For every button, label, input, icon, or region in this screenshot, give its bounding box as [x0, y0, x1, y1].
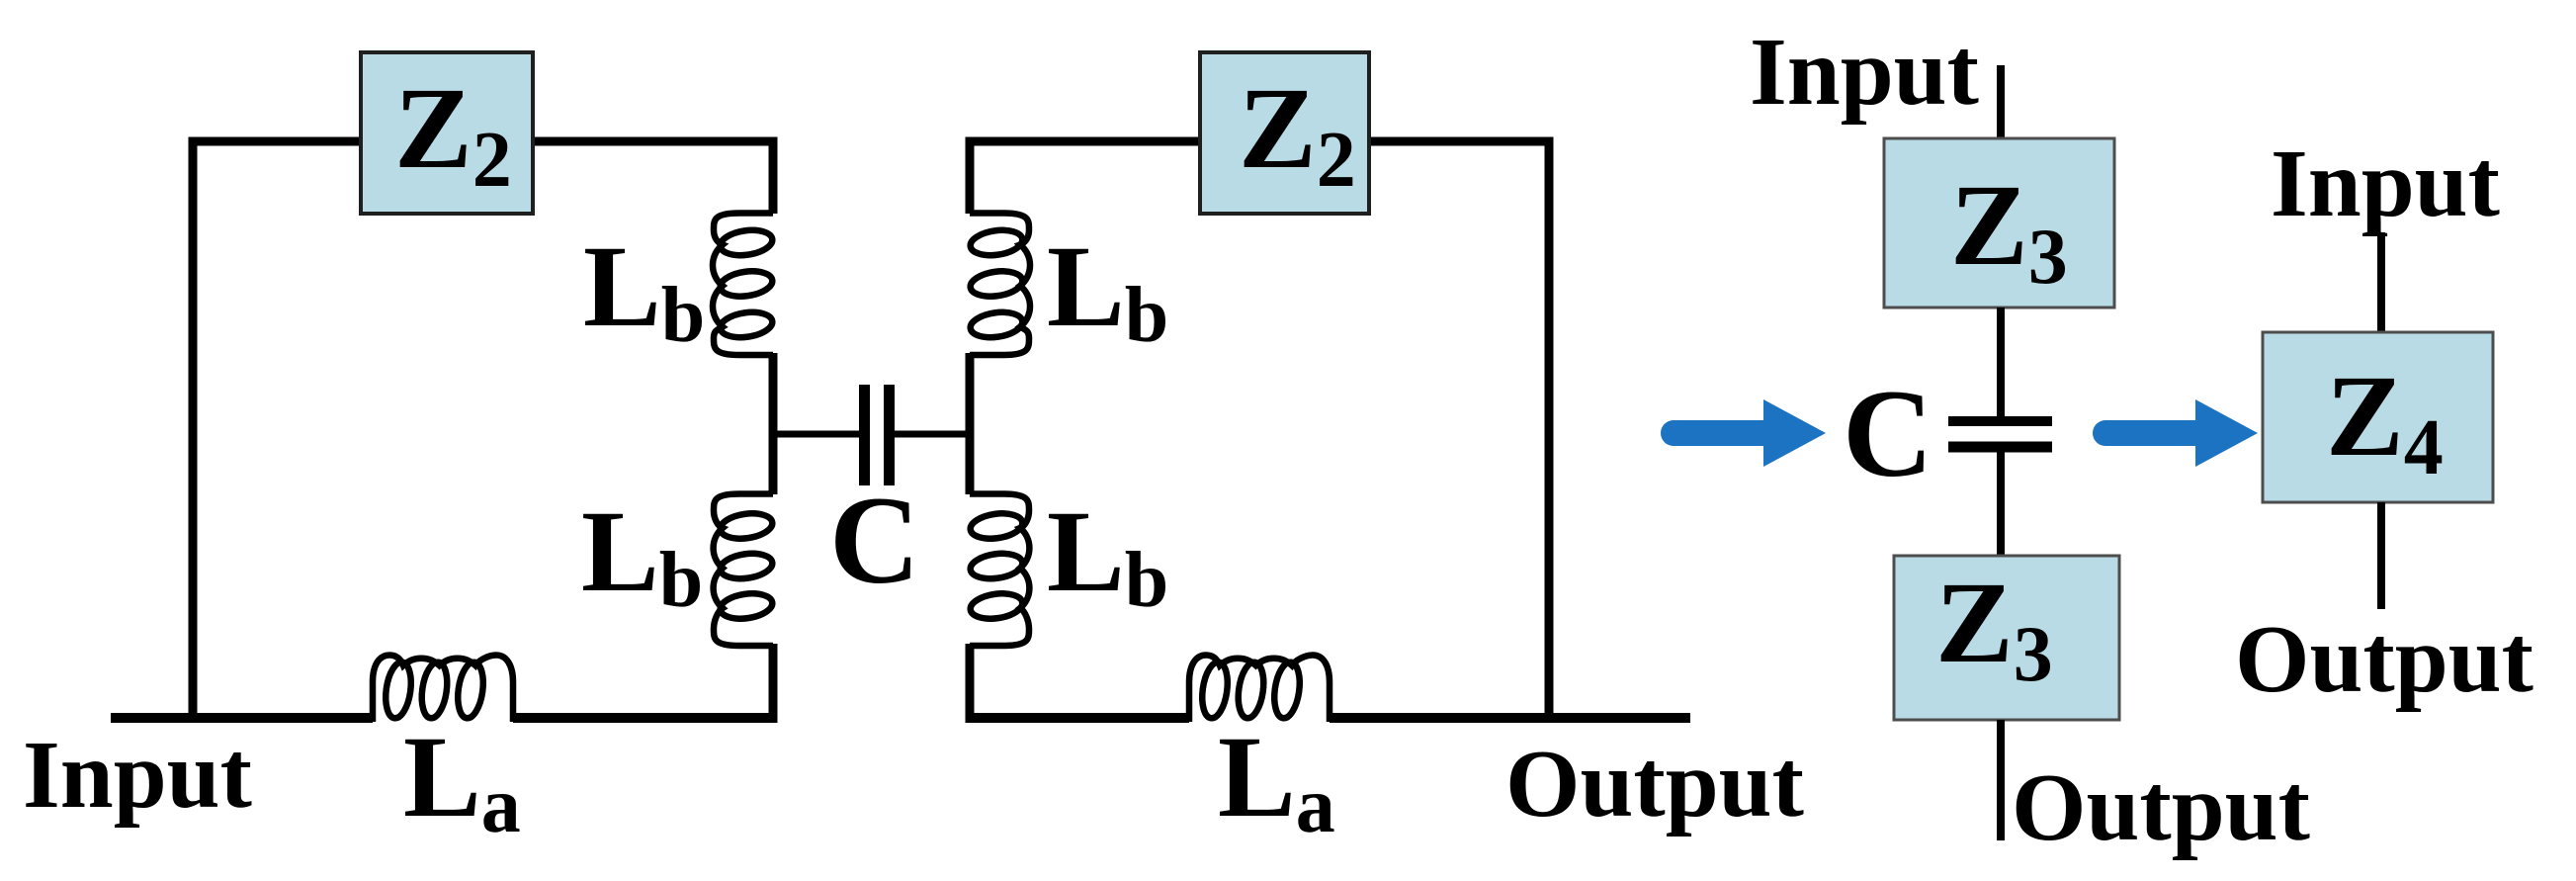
svg-text:Lb: Lb	[1047, 486, 1168, 624]
wire : bottom left, circuit 2	[966, 713, 1190, 723]
capacitor C (between circuits, vertical plates)	[859, 385, 870, 485]
wire : right branch lower vertical, circuit 1	[769, 644, 778, 718]
inductor La (circuit 2, horizontal coil)	[1189, 656, 1330, 723]
svg-text:Input: Input	[23, 722, 252, 828]
capacitor C (middle circuit, horizontal plates)	[1948, 416, 2052, 426]
wire : right branch middle vertical, circuit 1	[769, 353, 778, 494]
inductor La (circuit 1, horizontal coil)	[373, 656, 513, 723]
wire : left branch lower vertical, circuit 2	[966, 644, 975, 718]
wire : capacitor stub right	[895, 431, 970, 438]
arrow : left blue arrow	[1674, 420, 1769, 446]
svg-text:La: La	[403, 712, 521, 849]
svg-text:Lb: Lb	[583, 221, 705, 359]
arrow : right blue arrow	[2105, 420, 2201, 446]
wire : right branch upper vertical, circuit 1	[769, 137, 778, 214]
wire : bottom right output, circuit 2	[1330, 713, 1690, 723]
wire : output stub, middle circuit	[1997, 720, 2005, 840]
svg-text:Input: Input	[2271, 131, 2500, 236]
inductor Lb (circuit 2 lower, vertical coil)	[970, 494, 1029, 647]
impedance box Z4	[2263, 332, 2493, 502]
wire : left branch middle vertical, circuit 2	[966, 353, 975, 494]
impedance box Z3 (lower)	[1894, 556, 2119, 720]
svg-text:Lb: Lb	[1047, 221, 1168, 359]
svg-text:C: C	[1843, 365, 1933, 503]
impedance box Z2 (circuit 2)	[1200, 52, 1369, 214]
wire : left vertical, circuit 1	[189, 137, 198, 718]
wire : input bottom left, circuit 1	[111, 713, 373, 723]
svg-text:La: La	[1218, 712, 1335, 849]
svg-text:Output: Output	[2235, 606, 2533, 712]
wire : Z2 to top right corner, circuit 1	[533, 137, 778, 146]
wire : output stub, right circuit	[2377, 502, 2385, 609]
wire : top left horizontal to Z2, circuit 2	[966, 137, 1201, 146]
wire : Z2 to top right corner, circuit 2	[1369, 137, 1554, 146]
inductor Lb (circuit 1 upper, vertical coil)	[713, 214, 773, 356]
impedance box Z3 (upper)	[1884, 138, 2114, 308]
wire : right vertical, circuit 2	[1545, 137, 1554, 718]
wire : Z3 upper to capacitor, middle circuit	[1997, 308, 2005, 421]
svg-text:Output: Output	[1505, 731, 1804, 837]
inductor Lb (circuit 2 upper, vertical coil)	[970, 214, 1030, 356]
svg-text:Lb: Lb	[581, 486, 703, 624]
svg-text:Input: Input	[1750, 19, 1979, 125]
wire : bottom right of La to right branch, circuit 1	[513, 713, 778, 723]
wire : input stub, right circuit	[2377, 232, 2385, 332]
wire : left branch upper vertical, circuit 2	[966, 137, 975, 214]
impedance box Z2 (circuit 1)	[361, 52, 533, 214]
wire : capacitor stub left	[773, 431, 859, 438]
wire : capacitor to Z3 lower, middle circuit	[1997, 447, 2005, 556]
svg-text:Output: Output	[2012, 754, 2310, 860]
wire : input stub, middle circuit	[1997, 65, 2005, 138]
wire : top left horizontal to Z2, circuit 1	[189, 137, 362, 146]
svg-text:C: C	[829, 472, 920, 610]
inductor Lb (circuit 1 lower, vertical coil)	[714, 494, 773, 647]
